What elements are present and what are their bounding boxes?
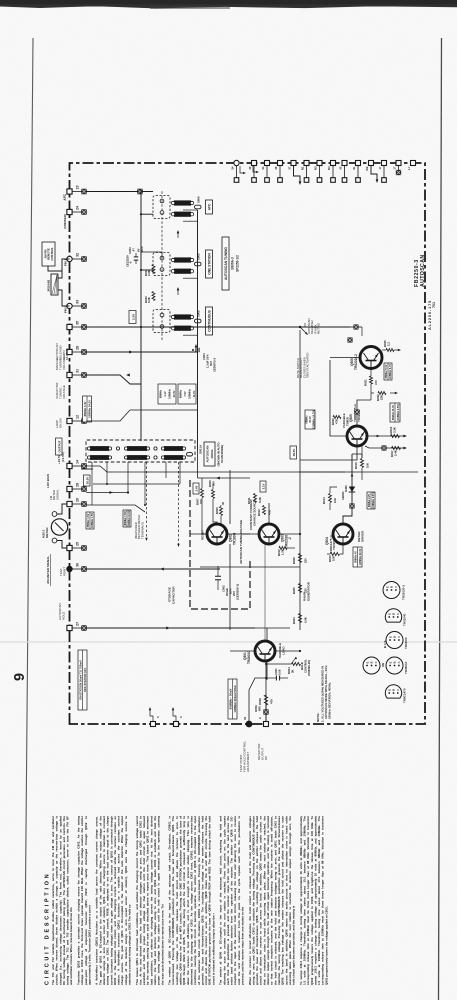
- connector J902A&B jack: [47, 274, 59, 295]
- resistor R910 1.5K: [269, 524, 295, 556]
- svg-text:C: C: [396, 613, 400, 615]
- ground arrow below continuous: [195, 344, 198, 352]
- svg-text:88MHz: 88MHz: [179, 389, 183, 398]
- svg-text:TR02020-2: TR02020-2: [354, 354, 358, 370]
- svg-text:R914: R914: [322, 497, 326, 504]
- svg-text:108MHz 1.5V: 108MHz 1.5V: [91, 513, 94, 528]
- svg-text:30: 30: [248, 166, 252, 170]
- svg-text:24: 24: [230, 166, 234, 170]
- svg-text:108MHz 200mV MAX: 108MHz 200mV MAX: [233, 685, 237, 712]
- capacitor feedthrough bead pin 33: [72, 304, 86, 309]
- wire varactor tuning feed: [86, 374, 141, 384]
- svg-text:88MHz: 88MHz: [159, 389, 163, 398]
- switch mute momentary: [299, 323, 309, 336]
- node connector pin 36 (right border): [274, 161, 283, 183]
- meter M902: [42, 512, 68, 543]
- svg-text:E: E: [387, 613, 391, 615]
- resistor R911 8.2K: [247, 494, 262, 505]
- transistor basing TR02020-2: [383, 582, 406, 601]
- svg-text:34: 34: [243, 716, 247, 720]
- wire Q906 collector up: [330, 327, 360, 358]
- svg-text:(CE93206-1): (CE93206-1): [236, 584, 240, 600]
- svg-text:TR08010: TR08010: [247, 651, 251, 664]
- svg-text:B: B: [370, 661, 374, 663]
- svg-text:ON-STATION 50mV TO 700mV: ON-STATION 50mV TO 700mV: [79, 660, 83, 700]
- svg-text:R906: R906: [292, 557, 296, 564]
- svg-text:37: 37: [287, 166, 291, 170]
- inductor tuner coil pair 3: [161, 446, 185, 460]
- svg-text:24.5V: 24.5V: [172, 390, 176, 397]
- svg-text:POINT: POINT: [62, 567, 66, 576]
- svg-text:AUTOSCAN: AUTOSCAN: [420, 254, 426, 287]
- svg-text:35: 35: [221, 501, 225, 505]
- svg-text:CONTINUOUS: CONTINUOUS: [208, 310, 212, 331]
- node label MANUAL TUNING VOLTAGE: [55, 356, 66, 370]
- svg-text:TR02040: TR02040: [403, 613, 407, 626]
- ground arrow right pins A: [294, 166, 302, 185]
- svg-text:VOLTAGE: VOLTAGE: [62, 356, 66, 370]
- resistor R908 390: [208, 480, 217, 524]
- capacitor C903 .47uF: [126, 246, 145, 267]
- svg-text:OUTPUT: OUTPUT: [58, 440, 62, 452]
- wire bus drop to storage box: [198, 450, 251, 479]
- svg-text:3.4V: 3.4V: [195, 485, 199, 491]
- svg-text:(108MHz 2.8V): (108MHz 2.8V): [397, 404, 400, 421]
- svg-text:0.06: 0.06: [278, 669, 282, 675]
- svg-text:3: 3: [179, 716, 183, 718]
- potentiometer R904 5K HOLD CONTROL: [287, 657, 311, 677]
- svg-text:RESET: RESET: [201, 530, 205, 540]
- svg-text:88MHz 1.5V: 88MHz 1.5V: [87, 513, 90, 527]
- svg-text:5.4K: 5.4K: [394, 450, 398, 456]
- svg-text:27: 27: [75, 622, 79, 626]
- svg-text:B: B: [393, 661, 397, 663]
- svg-text:2.2: 2.2: [387, 342, 391, 346]
- svg-text:VOLTAGE: VOLTAGE: [62, 385, 66, 399]
- node callout 36.5V: [290, 446, 297, 459]
- svg-text:S906 IS ACTUATED: S906 IS ACTUATED: [306, 353, 310, 378]
- svg-text:CE08875-5: CE08875-5: [213, 357, 217, 372]
- wire Q902 collector riser: [190, 533, 250, 535]
- svg-text:W2: W2: [365, 166, 369, 171]
- svg-text:N1: N1: [300, 166, 304, 170]
- node connector pin 30 (top border): [66, 563, 79, 572]
- svg-text:E: E: [385, 586, 389, 588]
- inductor tuner coil pair 2: [124, 446, 149, 460]
- svg-text:NOTE:: NOTE:: [316, 713, 320, 722]
- node label AUTOSCAN TUNING VOLTAGE: [239, 520, 243, 564]
- capacitor feedthrough bead pin 24: [72, 210, 86, 215]
- svg-text:470: 470: [374, 380, 378, 385]
- svg-text:SCAN MODE): SCAN MODE): [220, 445, 224, 463]
- wire lamp line: [86, 410, 197, 421]
- resistor R925 2.2: [382, 340, 401, 352]
- svg-text:E: E: [388, 661, 392, 663]
- capacitor feedthrough bead pin 30: [72, 567, 86, 572]
- svg-text:17: 17: [392, 166, 396, 170]
- svg-text:3.1V: 3.1V: [262, 483, 266, 489]
- switch S906B CONTINUOUS: [153, 307, 213, 335]
- node circuit description text column: [45, 816, 332, 985]
- wire switch row link: [183, 221, 198, 335]
- svg-text:N4: N4: [327, 166, 331, 170]
- node connector pin 27 (top border): [67, 622, 79, 631]
- resistor R913 10K: [327, 544, 343, 562]
- wire Q903 leads: [240, 503, 300, 534]
- node connector pin N1 (right border): [300, 161, 309, 183]
- resistor R923 8.2K: [144, 292, 155, 304]
- node callout 88MHz 4.4V B: [158, 384, 196, 404]
- svg-text:701: 701: [432, 302, 436, 308]
- node connector pin 31 (top border): [67, 369, 79, 378]
- wire paper left edge line: [25, 38, 34, 1000]
- svg-text:R912: R912: [257, 509, 261, 516]
- svg-text:16.5V: 16.5V: [86, 477, 90, 485]
- wire paper right edge line: [439, 38, 442, 1000]
- svg-text:35: 35: [338, 166, 342, 170]
- svg-text:C: C: [396, 689, 400, 691]
- svg-text:(108MHz 11.6V): (108MHz 11.6V): [128, 510, 131, 527]
- wire am meter line pin30: [86, 568, 220, 571]
- node label FB2250-3 AUTOSCAN: [414, 254, 426, 287]
- svg-text:88MHz 5.4V: 88MHz 5.4V: [385, 364, 388, 378]
- wire ramp node: [299, 330, 345, 630]
- svg-text:TERMINALS): TERMINALS): [140, 522, 144, 539]
- svg-text:TR1800I: TR1800I: [233, 533, 237, 545]
- transistor basing TR02040: [385, 609, 406, 626]
- svg-text:3.3K: 3.3K: [393, 427, 397, 433]
- wire meter driver chain: [343, 454, 362, 524]
- svg-text:47K: 47K: [268, 510, 272, 515]
- svg-text:9: 9: [12, 673, 28, 681]
- svg-text:SIGNAL: SIGNAL: [55, 489, 59, 500]
- svg-text:(108MHz 2.5V): (108MHz 2.5V): [372, 492, 375, 508]
- node connector pin 23 (top border): [67, 185, 79, 194]
- svg-text:34: 34: [261, 166, 265, 170]
- transistor Q903 TR02020-2: [249, 499, 292, 548]
- capacitor bead pin 17: [392, 161, 401, 175]
- svg-text:7.6V: 7.6V: [183, 391, 187, 397]
- svg-text:108MHz 24.5V: 108MHz 24.5V: [88, 400, 92, 418]
- wire storage capacitor dashed box: [190, 480, 250, 609]
- svg-text:R902: R902: [258, 698, 262, 705]
- svg-text:AM METER SIGNAL: AM METER SIGNAL: [46, 556, 50, 584]
- node connector pin 14 (top border): [67, 460, 79, 469]
- ground arrow top row A: [240, 166, 246, 174]
- node connector pin 17 (right border): [378, 161, 387, 183]
- svg-text:MUT’NG: MUT’NG: [317, 323, 321, 334]
- capacitor feedthrough bead pin 35: [72, 325, 86, 330]
- node page fold line: [0, 641, 457, 643]
- svg-text:108MHz: 108MHz: [188, 388, 192, 398]
- svg-text:108MHz 6.7V: 108MHz 6.7V: [389, 364, 392, 379]
- node connector pin 32 (top border): [67, 253, 80, 262]
- svg-text:R921: R921: [364, 379, 368, 386]
- wire Q905 Q906 link: [355, 400, 371, 426]
- transistor basing TR8C1475: [385, 685, 406, 703]
- svg-text:ONE STATION: ONE STATION: [208, 253, 212, 275]
- svg-text:2.2K: 2.2K: [147, 270, 151, 276]
- svg-text:.47: .47: [132, 248, 136, 252]
- resistor R901 600: [254, 705, 262, 712]
- svg-text:108MHz 22.4V: 108MHz 22.4V: [359, 548, 362, 565]
- node callout 88MHz 30.4V: [305, 410, 315, 429]
- resistor R903 5.8K: [292, 614, 308, 625]
- svg-text:R909: R909: [215, 507, 219, 514]
- svg-text:88(M)Hz - 30mV: 88(M)Hz - 30mV: [229, 689, 233, 710]
- resistor R906 220: [292, 554, 308, 565]
- wire AFC pin to switch: [86, 189, 153, 194]
- svg-text:B C E: B C E: [383, 640, 387, 648]
- connector J902 AM-FM remote control box: [42, 242, 55, 266]
- node label FM METER SIGNAL / LRV BIAS: [46, 474, 59, 500]
- svg-text:CR901: CR901: [341, 491, 345, 500]
- ground arrow between switches A: [177, 230, 180, 238]
- wire tuner stubs: [81, 462, 180, 506]
- capacitor feedthrough bead pin 28: [72, 487, 86, 492]
- svg-text:C: C: [397, 636, 401, 638]
- wire Q905 feeds: [300, 360, 385, 460]
- svg-text:390: 390: [212, 481, 216, 486]
- svg-text:23: 23: [75, 185, 79, 189]
- node label AUTOSCAN HOLD: [58, 603, 65, 620]
- svg-text:E: E: [365, 661, 369, 663]
- svg-text:25: 25: [75, 542, 79, 546]
- capacitor feedthrough bead pin 25: [72, 546, 86, 551]
- switch S906D AFC: [153, 196, 213, 219]
- svg-text:AFC: AFC: [63, 193, 67, 200]
- node connector pin 37 (right border): [287, 161, 296, 170]
- svg-text:33: 33: [75, 300, 79, 304]
- svg-text:ADJUSTMENT: ADJUSTMENT: [246, 752, 250, 772]
- svg-text:CAPACITOR: CAPACITOR: [172, 586, 176, 604]
- svg-text:17: 17: [378, 166, 382, 170]
- transistor Q901 TR08010 VARIABLE LOAD: [243, 641, 286, 664]
- svg-text:11.6V: 11.6V: [192, 390, 196, 397]
- svg-text:28: 28: [75, 483, 79, 487]
- wire hold ctl drop: [265, 651, 305, 679]
- ground arrow right pins B: [371, 166, 378, 183]
- svg-text:TIMER: TIMER: [345, 416, 349, 426]
- svg-text:TR08010: TR08010: [404, 661, 408, 674]
- node label OUTPUT box: [56, 438, 63, 455]
- node label +34.5V: [57, 452, 65, 464]
- svg-text:32: 32: [75, 253, 79, 257]
- svg-text:S901A: S901A: [199, 444, 203, 454]
- node connector pin 25 (top border): [67, 542, 79, 551]
- svg-text:1.5K: 1.5K: [281, 549, 285, 555]
- node callout ON-STATION: [78, 650, 87, 710]
- node connector pin N4 (right border): [327, 161, 336, 183]
- node callout 88MHz 5.4V Q906: [384, 363, 392, 380]
- capacitor feedthrough bead pin 32: [72, 257, 86, 262]
- resistor R907 370: [196, 478, 208, 534]
- node connector pin 35 (top border): [67, 321, 79, 330]
- wire mute line junction: [350, 325, 362, 336]
- svg-text:R903: R903: [292, 617, 296, 624]
- node connector pin 30 (right border): [248, 161, 257, 183]
- svg-text:TR02020-2: TR02020-2: [402, 585, 406, 600]
- svg-text:108MHz: 108MHz: [168, 388, 172, 398]
- wire emitter bus: [200, 567, 300, 628]
- svg-text:E: E: [388, 636, 392, 638]
- node callout 7.6V/11.6V: [123, 510, 131, 527]
- node callout 3.4V: [193, 483, 199, 494]
- svg-text:20%: 20%: [140, 246, 144, 252]
- node connector pin 24 (top border): [67, 206, 79, 215]
- svg-text:10K: 10K: [366, 463, 370, 468]
- wire jack to pins: [48, 259, 70, 306]
- transistor basing TR1800I: [383, 632, 408, 650]
- resistor R914 10K: [322, 487, 337, 510]
- node connector pin 35 (right border): [338, 161, 347, 183]
- svg-text:600: 600: [258, 706, 262, 711]
- svg-text:28: 28: [75, 346, 79, 350]
- node page number 9: [12, 673, 28, 681]
- svg-text:ON SW: ON SW: [58, 418, 62, 428]
- svg-text:8.2K: 8.2K: [147, 297, 151, 303]
- capacitor feedthrough bead pin 28: [72, 350, 86, 355]
- node label AUTOSCAN RELEASE: [55, 343, 69, 360]
- svg-text:-5: -5: [129, 261, 133, 264]
- svg-text:88MHz 4V: 88MHz 4V: [355, 551, 358, 563]
- svg-text:E: E: [387, 689, 391, 691]
- wire charge bus horizontal: [230, 470, 267, 680]
- capacitor feedthrough bead pin 14: [72, 464, 86, 469]
- node connector pin 28 (top border): [67, 346, 79, 355]
- svg-text:PIN 1: PIN 1: [64, 259, 68, 266]
- svg-text:PIN 5: PIN 5: [64, 306, 68, 313]
- svg-text:DRIVER: DRIVER: [361, 530, 365, 542]
- wire +34.5V line: [86, 466, 418, 472]
- switch S906C ONE STATION: [153, 250, 213, 278]
- svg-text:88MHz 2.2V: 88MHz 2.2V: [368, 494, 371, 508]
- node callout 88MHz 2.2V: [367, 492, 375, 509]
- svg-text:26: 26: [75, 498, 79, 502]
- node label measured between meter terminals: [134, 515, 144, 539]
- wire muting line pin35 to Q906: [86, 311, 350, 328]
- node label AUTOSCAN TUNING S906A-3 SP2250-1/2: [222, 237, 240, 290]
- ground arrow between switches B: [177, 287, 180, 295]
- node label TEST POINT FOR HOLD CONTROL ADJUSTMENT: [239, 741, 250, 772]
- svg-text:R905: R905: [292, 587, 296, 594]
- svg-text:220: 220: [304, 558, 308, 563]
- node label (UNUSED): [63, 214, 67, 229]
- node label STORAGE CAPACITOR: [168, 586, 176, 604]
- resistor R917 5.4K: [365, 446, 407, 457]
- svg-text:3.3V: 3.3V: [131, 314, 135, 320]
- capacitor feedthrough bead pin 12: [72, 419, 86, 424]
- resistor R902 47K: [258, 661, 274, 721]
- node connector pin N3 (right border): [313, 161, 322, 183]
- resistor R924 2.2K: [144, 265, 155, 277]
- wire bus R924 drop: [141, 252, 162, 259]
- node connector pin 34 (right border): [261, 161, 270, 183]
- svg-text:88MHz 32.4V: 88MHz 32.4V: [392, 405, 395, 420]
- node connector pin W2 (right border): [365, 161, 374, 171]
- transistor basing TR08010 alt: [363, 657, 385, 674]
- svg-text:L7: L7: [407, 166, 411, 170]
- node DETECTOR OUTPUT pin: [258, 717, 269, 727]
- wire switch common rail: [161, 190, 163, 340]
- svg-text:TR1800I: TR1800I: [404, 637, 408, 649]
- wire bus manual tuning: [141, 190, 153, 441]
- svg-text:47K: 47K: [270, 698, 274, 704]
- wire test point net: [249, 678, 266, 721]
- transistor basing TR08010: [386, 657, 408, 674]
- node label VARACTOR TUNING VOLTAGE: [55, 382, 66, 399]
- wire hold line to Q901: [266, 628, 267, 724]
- resistor R922 22K: [371, 392, 398, 402]
- node callout 88MHz 4V: [353, 547, 362, 567]
- transistor Q904 TR8C1475 METER DRIVER: [325, 524, 365, 553]
- svg-text:22K: 22K: [380, 395, 384, 400]
- svg-text:B: B: [390, 586, 394, 588]
- svg-text:1N60: 1N60: [344, 485, 348, 492]
- svg-text:M26.0: M26.0: [42, 529, 46, 538]
- node label AUTOSCAN RELEASE IF-MPX MUTING (Q906): [307, 319, 321, 335]
- node label S901A AUTOSCAN MODE: [199, 442, 224, 467]
- svg-text:36: 36: [274, 166, 278, 170]
- capacitor feedthrough bead pin 31: [72, 373, 86, 378]
- svg-text:8.2K: 8.2K: [258, 497, 262, 503]
- wire autoscan hold line pin27: [86, 627, 255, 630]
- svg-text:CHARGE SOURCE: CHARGE SOURCE: [253, 500, 257, 526]
- svg-text:TR8C1475: TR8C1475: [403, 688, 407, 703]
- wire manual tuning feed: [86, 351, 197, 354]
- wire page top scan edge bar: [0, 0, 457, 9]
- svg-text:b: b: [258, 717, 262, 719]
- node NOTE text: [316, 665, 332, 722]
- node label TEST POINT: [59, 567, 66, 576]
- node callout 88MHz 32.4V: [390, 403, 400, 422]
- svg-text:AUTOSCAN TUNING: AUTOSCAN TUNING: [224, 247, 228, 280]
- capacitor feedthrough bead pin 23: [72, 189, 86, 194]
- svg-text:30: 30: [75, 563, 79, 567]
- node connector pin 3L (right border): [352, 161, 361, 183]
- resistor R916 3.3K: [385, 426, 407, 437]
- wire tuning voltage bus: [183, 210, 198, 450]
- svg-text:3L: 3L: [352, 166, 356, 170]
- capacitor C902 storage: [215, 566, 240, 600]
- node tuner mid contacts: [116, 447, 192, 459]
- node label MUTE SWITCH note: [296, 353, 310, 378]
- capacitor feedthrough bead pin 27: [72, 626, 86, 631]
- wire meter to pins: [57, 504, 67, 548]
- svg-text:C: C: [374, 661, 378, 663]
- svg-text:88MHz 4.4V: 88MHz 4.4V: [83, 401, 87, 416]
- svg-text:370: 370: [199, 499, 203, 504]
- svg-text:GENERATOR: GENERATOR: [307, 581, 311, 601]
- svg-text:12: 12: [75, 415, 79, 419]
- ground arrow top row B: [253, 166, 259, 173]
- wire Q901 leads: [230, 650, 301, 652]
- wire 16.5V feed: [84, 469, 94, 486]
- node connector pin L7 (right border): [407, 161, 416, 170]
- svg-text:AFC: AFC: [208, 203, 212, 210]
- node callout 88MHz 1.5V: [86, 512, 94, 529]
- resistor R909 35: [215, 501, 225, 524]
- node connector pin 33 (top border): [67, 300, 80, 309]
- resistor R919 10K: [354, 446, 370, 480]
- svg-text:100kHz DEVIATION, 400Hz.: 100kHz DEVIATION, 400Hz.: [328, 682, 332, 719]
- resistor R905 220: [292, 584, 308, 595]
- svg-text:TR02040: TR02040: [332, 537, 336, 550]
- svg-text:LOAD: LOAD: [282, 646, 286, 655]
- svg-text:B: B: [393, 636, 397, 638]
- node label LAMP ON SW: [55, 418, 62, 428]
- svg-text:36.5V: 36.5V: [292, 449, 296, 457]
